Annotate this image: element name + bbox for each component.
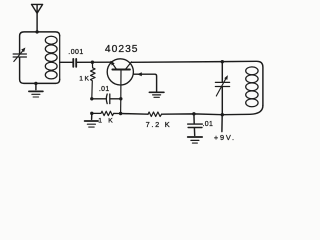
node R2 left / ground tap: [90, 112, 93, 115]
resistor R2 1K horizontal: [92, 111, 121, 115]
node base-bias junction: [91, 61, 94, 64]
svg-text:+9V.: +9V.: [214, 133, 236, 142]
variable capacitor C4: [215, 62, 229, 115]
wire +9V lead: [221, 115, 223, 132]
svg-text:.001: .001: [68, 49, 83, 56]
node +9V junction: [221, 113, 224, 116]
svg-text:.01: .01: [203, 121, 214, 128]
ground emitter: [149, 92, 164, 97]
ground below R1: [85, 113, 99, 127]
node cap row right: [119, 97, 122, 100]
svg-text:40235: 40235: [105, 44, 139, 55]
transistor Q1 40235: [107, 59, 133, 114]
wire tank left lower: [20, 57, 60, 83]
wire tank top: [20, 32, 60, 54]
wire C2 to base: [77, 61, 111, 63]
ground tank: [29, 83, 43, 97]
inductor L2: [246, 67, 258, 107]
resistor R3 7.2K: [148, 112, 162, 117]
variable capacitor C1: [13, 48, 26, 62]
ground bypass: [188, 137, 203, 143]
antenna: [32, 4, 43, 31]
node cap row left: [90, 97, 93, 100]
node varcap top junction: [221, 60, 224, 63]
svg-text:7.2 K: 7.2 K: [146, 120, 172, 129]
node antenna-tank junction: [35, 30, 38, 33]
inductor L1: [45, 36, 59, 80]
node bypass cap junction: [192, 112, 195, 115]
capacitor C3 .01: [92, 94, 121, 104]
capacitor C5 .01: [188, 114, 203, 136]
svg-text:1K: 1K: [79, 75, 90, 82]
wire bottom bus: [121, 106, 263, 115]
wire collector top bus: [131, 61, 263, 105]
node base stem bottom: [119, 112, 122, 115]
capacitor C2 .001: [73, 59, 76, 67]
resistor R1 1K vertical: [91, 62, 96, 99]
svg-text:1K: 1K: [98, 117, 119, 124]
wire coil tap to C2: [60, 61, 73, 63]
wire emitter to ground: [133, 72, 156, 91]
svg-text:.01: .01: [99, 86, 110, 93]
node tank ground junction: [34, 82, 37, 85]
